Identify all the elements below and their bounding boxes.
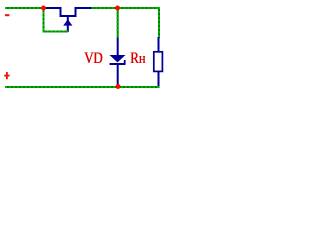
plus terminal sign <box>4 72 9 79</box>
zener VD top lead (navy part) <box>117 38 119 56</box>
diode VD1 anode triangle <box>63 19 72 25</box>
resistor Rn body <box>154 52 163 72</box>
zener VD cathode bar <box>110 63 126 65</box>
node B (junction dot, top of zener branch) <box>115 6 120 11</box>
diode VD1 anode lead <box>67 16 69 32</box>
wire: zener VD top lead (green part) <box>117 9 119 38</box>
wire: right vertical from top rail (green part) <box>158 7 160 38</box>
wire: left branch vertical <box>43 8 45 33</box>
zener VD anode triangle <box>110 55 126 62</box>
wire navy: step-down at diode VD1 left <box>60 7 62 17</box>
wire navy: node A to diode VD1 step <box>46 7 62 9</box>
wire navy: diode VD1 to top-right <box>75 7 92 9</box>
zener VD cathode tick <box>124 60 126 64</box>
wire navy: step-up at diode VD1 right <box>75 7 77 17</box>
label VD (zener designator) <box>84 52 109 65</box>
diode VD1 cathode bar <box>60 15 77 17</box>
wire: top rail right <box>92 7 161 9</box>
wire: middle horizontal to diode VD1 anode <box>43 31 69 33</box>
wire: top rail left (minus side) <box>5 7 43 9</box>
node C (junction dot, bottom of zener branch) <box>116 84 121 89</box>
resistor Rn bottom lead navy <box>158 72 160 88</box>
resistor Rn top lead navy <box>158 37 160 52</box>
minus terminal sign <box>5 14 9 16</box>
zener VD bottom lead navy <box>117 65 119 87</box>
label Rn (load resistor designator) <box>130 52 155 66</box>
node A (junction dot, top-left) <box>41 6 46 11</box>
wire: bottom rail (plus side) <box>5 86 160 88</box>
